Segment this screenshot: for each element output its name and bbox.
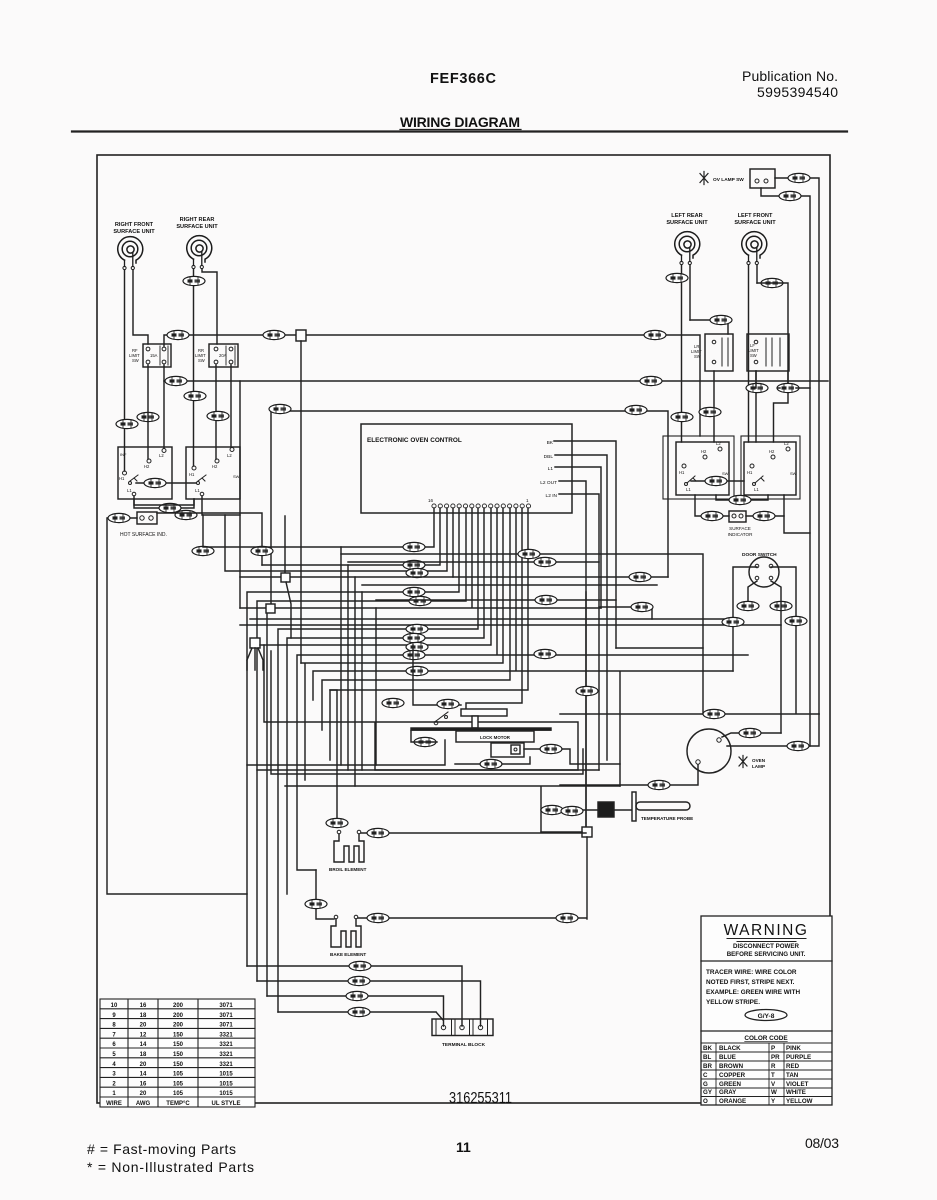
wire LR top jog [690, 320, 728, 334]
connector on bus y335 left [167, 330, 189, 339]
probe lead [614, 809, 632, 811]
connector bake left [305, 899, 327, 908]
right band row y600 [376, 600, 703, 648]
lamp top wire [560, 713, 819, 715]
svg-text:20: 20 [140, 1023, 147, 1029]
connector lamp bottom [648, 780, 670, 789]
vertical L2OUT long [585, 592, 587, 828]
LR surface unit leads [682, 265, 691, 442]
svg-text:ELECTRONIC OVEN CONTROL: ELECTRONIC OVEN CONTROL [367, 437, 462, 444]
connector bake right [367, 913, 389, 922]
step row y601 [257, 508, 466, 981]
connector on lamp sw lower wire [779, 191, 801, 200]
right band row y577 [453, 576, 668, 578]
svg-text:RED: RED [786, 1063, 800, 1070]
connector on RF limit lead [137, 412, 159, 421]
svg-text:18: 18 [140, 1052, 147, 1058]
svg-text:H2: H2 [144, 464, 150, 469]
door switch lower right wire [771, 581, 781, 733]
probe label [641, 816, 693, 821]
svg-text:105: 105 [173, 1091, 184, 1097]
svg-text:LOCK MOTOR: LOCK MOTOR [480, 735, 511, 740]
svg-text:GY: GY [703, 1089, 713, 1096]
bottom row 996 [267, 996, 444, 1026]
connector lockmotor bottom [480, 759, 502, 768]
svg-text:YELLOW STRIPE.: YELLOW STRIPE. [706, 999, 760, 1006]
connector below LF limit a [746, 383, 768, 392]
svg-text:SURFACE UNIT: SURFACE UNIT [666, 220, 708, 226]
svg-text:FEF366C: FEF366C [430, 71, 497, 87]
svg-text:3321: 3321 [219, 1052, 233, 1058]
connector on LF lead [761, 278, 783, 287]
svg-text:1: 1 [526, 498, 529, 503]
heading underline [400, 129, 521, 131]
row y786 [285, 786, 620, 832]
svg-text:O: O [703, 1098, 708, 1105]
connector bake right b [556, 913, 578, 922]
EOC pin wire BK [554, 441, 616, 648]
junction square row577 [281, 573, 290, 582]
connector band562 [534, 557, 556, 566]
lock motor lower box [491, 743, 524, 757]
probe body [636, 802, 690, 810]
svg-text:200: 200 [173, 1023, 184, 1029]
connector row565 [403, 560, 425, 569]
svg-text:SW: SW [750, 353, 757, 358]
svg-text:L1: L1 [686, 487, 691, 492]
connector band577 [629, 572, 651, 581]
svg-text:YELLOW: YELLOW [786, 1098, 813, 1105]
svg-text:W: W [771, 1089, 777, 1096]
svg-text:BEFORE SERVICING UNIT.: BEFORE SERVICING UNIT. [727, 951, 806, 958]
LF limit switch [747, 334, 789, 371]
row y770 [257, 769, 599, 771]
svg-text:G/Y-8: G/Y-8 [758, 1013, 775, 1020]
svg-text:L1: L1 [754, 487, 759, 492]
left front surface unit [734, 213, 776, 265]
junction square on bus y335 [296, 330, 306, 341]
connector above LR limit [710, 315, 732, 324]
svg-text:LEFT REAR: LEFT REAR [671, 213, 702, 219]
step row y638 [287, 508, 484, 894]
wire probe junction left [541, 831, 582, 833]
svg-text:RIGHT FRONT: RIGHT FRONT [115, 222, 154, 228]
bottom row 981 [257, 981, 481, 1026]
svg-text:20: 20 [140, 1062, 147, 1068]
connector row996 [346, 991, 368, 1000]
svg-text:10: 10 [111, 1003, 118, 1009]
connector row592 [403, 587, 425, 596]
wire bake right [358, 917, 586, 919]
svg-text:OV LAMP SW: OV LAMP SW [713, 177, 744, 183]
row y765 [247, 740, 445, 765]
connector row966 [349, 961, 371, 970]
door switch [742, 552, 779, 587]
probe junction square [582, 827, 592, 837]
svg-text:EXAMPLE: GREEN WIRE WITH: EXAMPLE: GREEN WIRE WITH [706, 989, 800, 996]
svg-text:LAMP: LAMP [752, 764, 765, 769]
wire surface indicator right [746, 495, 784, 516]
connector between left levers [144, 478, 166, 487]
svg-text:TEMP°C: TEMP°C [166, 1101, 190, 1107]
svg-text:3071: 3071 [219, 1013, 233, 1019]
broil element [334, 834, 364, 862]
step row y565 [262, 508, 440, 565]
svg-text:P: P [771, 1045, 775, 1052]
svg-text:BK: BK [703, 1045, 712, 1052]
svg-text:20A: 20A [219, 353, 227, 358]
svg-text:BR: BR [703, 1063, 712, 1070]
svg-text:3321: 3321 [219, 1032, 233, 1038]
lamp right wire a [722, 733, 781, 737]
svg-text:HOT SURFACE IND.: HOT SURFACE IND. [120, 532, 167, 538]
svg-text:150: 150 [173, 1032, 184, 1038]
connector on bus y411 left [269, 404, 291, 413]
step row y608 [240, 508, 601, 996]
svg-text:3071: 3071 [219, 1023, 233, 1029]
connector row645 [406, 642, 428, 651]
svg-text:200: 200 [173, 1003, 184, 1009]
step row y703 [413, 508, 522, 709]
wire lockmotor left [411, 731, 437, 742]
svg-text:105: 105 [173, 1072, 184, 1078]
riser x240 [239, 381, 241, 608]
svg-text:H1: H1 [189, 472, 195, 477]
left riser wires from switches [134, 499, 194, 505]
door lower row b [240, 624, 781, 626]
svg-text:BAKE ELEMENT: BAKE ELEMENT [330, 952, 366, 957]
connector band607 [631, 602, 653, 611]
connector row638 [403, 633, 425, 642]
connector on RR lead [183, 276, 205, 285]
connector lockmotor right [540, 744, 562, 753]
svg-text:WHITE: WHITE [786, 1089, 806, 1096]
svg-text:H1: H1 [119, 476, 125, 481]
svg-text:BLACK: BLACK [719, 1045, 741, 1052]
step row y629 [278, 508, 478, 1012]
svg-text:16: 16 [428, 498, 434, 503]
connector door sw c [722, 617, 744, 626]
connector vert a [192, 546, 214, 555]
svg-text:Publication No.: Publication No. [742, 68, 838, 84]
connector band600 [535, 595, 557, 604]
probe plug [598, 802, 614, 817]
connector on bus y381 left [165, 376, 187, 385]
svg-text:NOTED FIRST, STRIPE NEXT.: NOTED FIRST, STRIPE NEXT. [706, 979, 795, 986]
step row y577 [240, 508, 453, 577]
svg-text:14: 14 [140, 1042, 147, 1048]
wire broil left riser [330, 690, 337, 818]
svg-text:AWG: AWG [136, 1101, 151, 1107]
connector lamp top [703, 709, 725, 718]
connector row655b [534, 649, 556, 658]
svg-text:SW: SW [233, 474, 240, 479]
temperature probe [541, 809, 598, 811]
limiter leads left [148, 365, 231, 459]
svg-text:150: 150 [173, 1042, 184, 1048]
svg-text:3321: 3321 [219, 1042, 233, 1048]
connector below left switch a [159, 503, 181, 512]
svg-text:18: 18 [140, 1013, 147, 1019]
connector probe b [561, 806, 583, 815]
lamp right wire b [727, 714, 819, 746]
left infinite switch 2 [186, 447, 240, 499]
svg-text:SW: SW [132, 358, 139, 363]
step row y663 [301, 508, 503, 780]
svg-text:T: T [771, 1072, 775, 1079]
svg-text:20: 20 [140, 1091, 147, 1097]
step row y655 [297, 508, 748, 870]
footer legend [87, 1141, 254, 1175]
lock motor body [456, 731, 534, 742]
right band row y607 [599, 607, 652, 619]
svg-text:3321: 3321 [219, 1062, 233, 1068]
svg-text:PURPLE: PURPLE [786, 1054, 811, 1061]
svg-text:11: 11 [456, 1139, 471, 1155]
right riser door to lamp [784, 516, 810, 533]
svg-text:RIGHT REAR: RIGHT REAR [180, 217, 215, 223]
wire switch2 bottom to mid [157, 513, 262, 565]
svg-text:5995394540: 5995394540 [757, 84, 838, 100]
svg-text:L1: L1 [548, 466, 554, 472]
main frame border [97, 155, 830, 1103]
svg-text:L2: L2 [227, 453, 232, 458]
left rear surface unit [666, 213, 708, 265]
svg-text:BROWN: BROWN [719, 1063, 744, 1070]
connector on bus y335 right [644, 330, 666, 339]
svg-text:H1: H1 [679, 470, 685, 475]
svg-text:150: 150 [173, 1052, 184, 1058]
right band row y562 [348, 561, 599, 563]
connector on RR left lead [184, 391, 206, 400]
connector right riser [785, 616, 807, 625]
svg-text:200: 200 [173, 1013, 184, 1019]
wires below right switches [716, 495, 768, 500]
bus wire y411 [271, 411, 668, 604]
svg-text:DOOR SWITCH: DOOR SWITCH [742, 552, 777, 558]
svg-text:L2: L2 [159, 453, 164, 458]
LF lead jog [757, 283, 788, 442]
svg-text:ORANGE: ORANGE [719, 1098, 746, 1105]
svg-text:# = Fast-moving Parts: # = Fast-moving Parts [87, 1141, 236, 1157]
lock motor T lever [461, 709, 507, 716]
lock motor enclosure [264, 645, 583, 774]
svg-text:OVEN: OVEN [752, 758, 766, 763]
svg-text:H2: H2 [769, 449, 775, 454]
connector between right levers [705, 476, 727, 485]
connector below LF limit b [777, 383, 799, 392]
connector lamp right b [787, 741, 809, 750]
svg-text:L2 IN: L2 IN [546, 493, 558, 499]
connector lockmotor left [414, 737, 436, 746]
connector row655a [403, 650, 425, 659]
svg-text:WARNING: WARNING [724, 922, 809, 939]
wire lockmotor right [524, 749, 620, 764]
svg-text:L2 OUT: L2 OUT [540, 480, 557, 486]
connector row671 [406, 666, 428, 675]
svg-text:LEFT FRONT: LEFT FRONT [738, 213, 773, 219]
bottom row 966 [247, 966, 462, 1026]
svg-text:3071: 3071 [219, 1003, 233, 1009]
hot surface indicator [120, 512, 167, 538]
probe flange [632, 792, 636, 821]
svg-text:* = Non-Illustrated Parts: * = Non-Illustrated Parts [87, 1159, 254, 1175]
lamp bottom wire [560, 765, 698, 785]
oven lamp [687, 729, 766, 773]
connector probe a [541, 805, 563, 814]
connector below left switch b [175, 510, 197, 519]
wire square to bake [586, 837, 588, 919]
connector below RR limit [207, 411, 229, 420]
svg-text:PINK: PINK [786, 1045, 801, 1052]
connector row1012 [348, 1007, 370, 1016]
connector on LR limit lead [699, 407, 721, 416]
connector on RF left lead [116, 419, 138, 428]
junction square row608 [266, 604, 275, 613]
connector row601 [409, 596, 431, 605]
step row y690 [330, 508, 528, 760]
connector band554a [518, 549, 540, 558]
svg-text:14: 14 [140, 1072, 147, 1078]
svg-text:H2: H2 [701, 449, 707, 454]
bottom row 1012 [278, 1012, 443, 1020]
date [805, 1135, 839, 1151]
svg-text:R: R [771, 1063, 776, 1070]
svg-text:L2: L2 [784, 441, 789, 446]
connector hot surface [108, 513, 130, 522]
connector on bus y411 right [625, 405, 647, 414]
page number [456, 1139, 471, 1155]
svg-text:SW: SW [790, 471, 797, 476]
connector lockmotor top [437, 699, 459, 708]
terminal block [432, 1019, 493, 1048]
connector surface ind right [753, 511, 775, 520]
connector door sw a [737, 601, 759, 610]
connector on lamp sw wire [788, 173, 810, 182]
step row y680 [322, 508, 510, 730]
wire between right switch levers [691, 480, 744, 482]
wires below left switches [134, 496, 240, 515]
svg-text:150: 150 [173, 1062, 184, 1068]
electronic oven control [361, 424, 572, 513]
svg-text:316255311: 316255311 [449, 1090, 512, 1107]
connector lamp right a [739, 728, 761, 737]
svg-text:TERMINAL BLOCK: TERMINAL BLOCK [442, 1042, 486, 1048]
riser x301 [300, 341, 302, 663]
svg-text:GRAY: GRAY [719, 1089, 737, 1096]
RR limit switch [195, 344, 238, 367]
step row y571 [225, 508, 447, 571]
svg-text:VIOLET: VIOLET [786, 1081, 809, 1088]
svg-text:16: 16 [140, 1003, 147, 1009]
oven lamp switch [700, 169, 775, 188]
connector vert b [251, 546, 273, 555]
svg-text:16: 16 [140, 1081, 147, 1087]
wire surface indicator left [695, 495, 729, 516]
part number [449, 1090, 512, 1107]
door switch lower left wire [748, 581, 757, 604]
connector on LR lead [666, 273, 688, 282]
wire: lamp sw bottom lead [761, 188, 810, 746]
connector broil left [326, 818, 348, 827]
lock motor bar [411, 728, 551, 730]
svg-text:WIRE: WIRE [106, 1101, 122, 1107]
right band row y554 [341, 554, 703, 714]
svg-text:1015: 1015 [219, 1072, 233, 1078]
svg-text:L1: L1 [195, 488, 200, 493]
door lower row a [250, 618, 733, 620]
right infinite switch 1 [663, 436, 734, 499]
svg-text:C: C [703, 1072, 708, 1079]
svg-text:1015: 1015 [219, 1091, 233, 1097]
mid column verticals [341, 547, 376, 786]
RR surface unit leads [194, 269, 218, 466]
step row y592 [247, 508, 459, 966]
connector row547 [403, 542, 425, 551]
svg-text:DBL: DBL [544, 454, 554, 460]
svg-text:BROIL ELEMENT: BROIL ELEMENT [329, 867, 367, 872]
svg-text:SURFACE UNIT: SURFACE UNIT [113, 229, 155, 235]
svg-text:H1: H1 [747, 470, 753, 475]
wire bake left riser [316, 870, 334, 919]
svg-text:1015: 1015 [219, 1081, 233, 1087]
svg-text:BLUE: BLUE [719, 1054, 736, 1061]
surface indicator [728, 511, 754, 537]
EOC pin wire L2 OUT [559, 481, 586, 828]
connector below right switches [729, 495, 751, 504]
right band row y585 [362, 584, 657, 586]
door switch left wire [733, 567, 757, 671]
svg-text:WIRING DIAGRAM: WIRING DIAGRAM [400, 114, 520, 130]
EOC pin wire DBL [555, 455, 607, 760]
svg-text:BK: BK [547, 440, 554, 446]
connector on bus y335 mid [263, 330, 285, 339]
RF limit switch [129, 344, 171, 367]
svg-text:TAN: TAN [786, 1072, 799, 1079]
svg-text:SW: SW [722, 471, 729, 476]
publication no label [742, 68, 838, 100]
svg-text:INF: INF [120, 452, 127, 457]
connector row981 [348, 976, 370, 985]
svg-text:SURFACE UNIT: SURFACE UNIT [734, 220, 776, 226]
svg-text:12: 12 [140, 1032, 147, 1038]
lock motor switch contacts [434, 712, 448, 725]
left long vertical [107, 518, 247, 894]
heading rule [72, 130, 847, 132]
diagonal from square 577 [286, 582, 291, 638]
wire hot surface left [108, 517, 137, 519]
step row y671 [313, 508, 733, 786]
warning box [701, 916, 832, 1105]
wire between left switch levers [136, 482, 196, 484]
left infinite switch 1 [118, 447, 172, 499]
connector on L2OUT vertical [576, 686, 598, 695]
svg-text:COPPER: COPPER [719, 1072, 746, 1079]
wiring diagram heading [400, 114, 520, 130]
EOC pin wire L1 [555, 467, 601, 608]
svg-text:COLOR CODE: COLOR CODE [744, 1035, 788, 1042]
svg-text:TRACER WIRE: WIRE COLOR: TRACER WIRE: WIRE COLOR [706, 969, 797, 976]
svg-text:105: 105 [173, 1081, 184, 1087]
svg-text:L2: L2 [716, 441, 721, 446]
svg-text:L1: L1 [127, 488, 132, 493]
svg-text:BL: BL [703, 1054, 711, 1061]
header title FEF366C [430, 71, 497, 87]
connector broil right [367, 828, 389, 837]
svg-text:INDICATOR: INDICATOR [728, 532, 754, 537]
wire gauge table [100, 999, 255, 1107]
svg-text:DISCONNECT POWER: DISCONNECT POWER [733, 943, 800, 950]
